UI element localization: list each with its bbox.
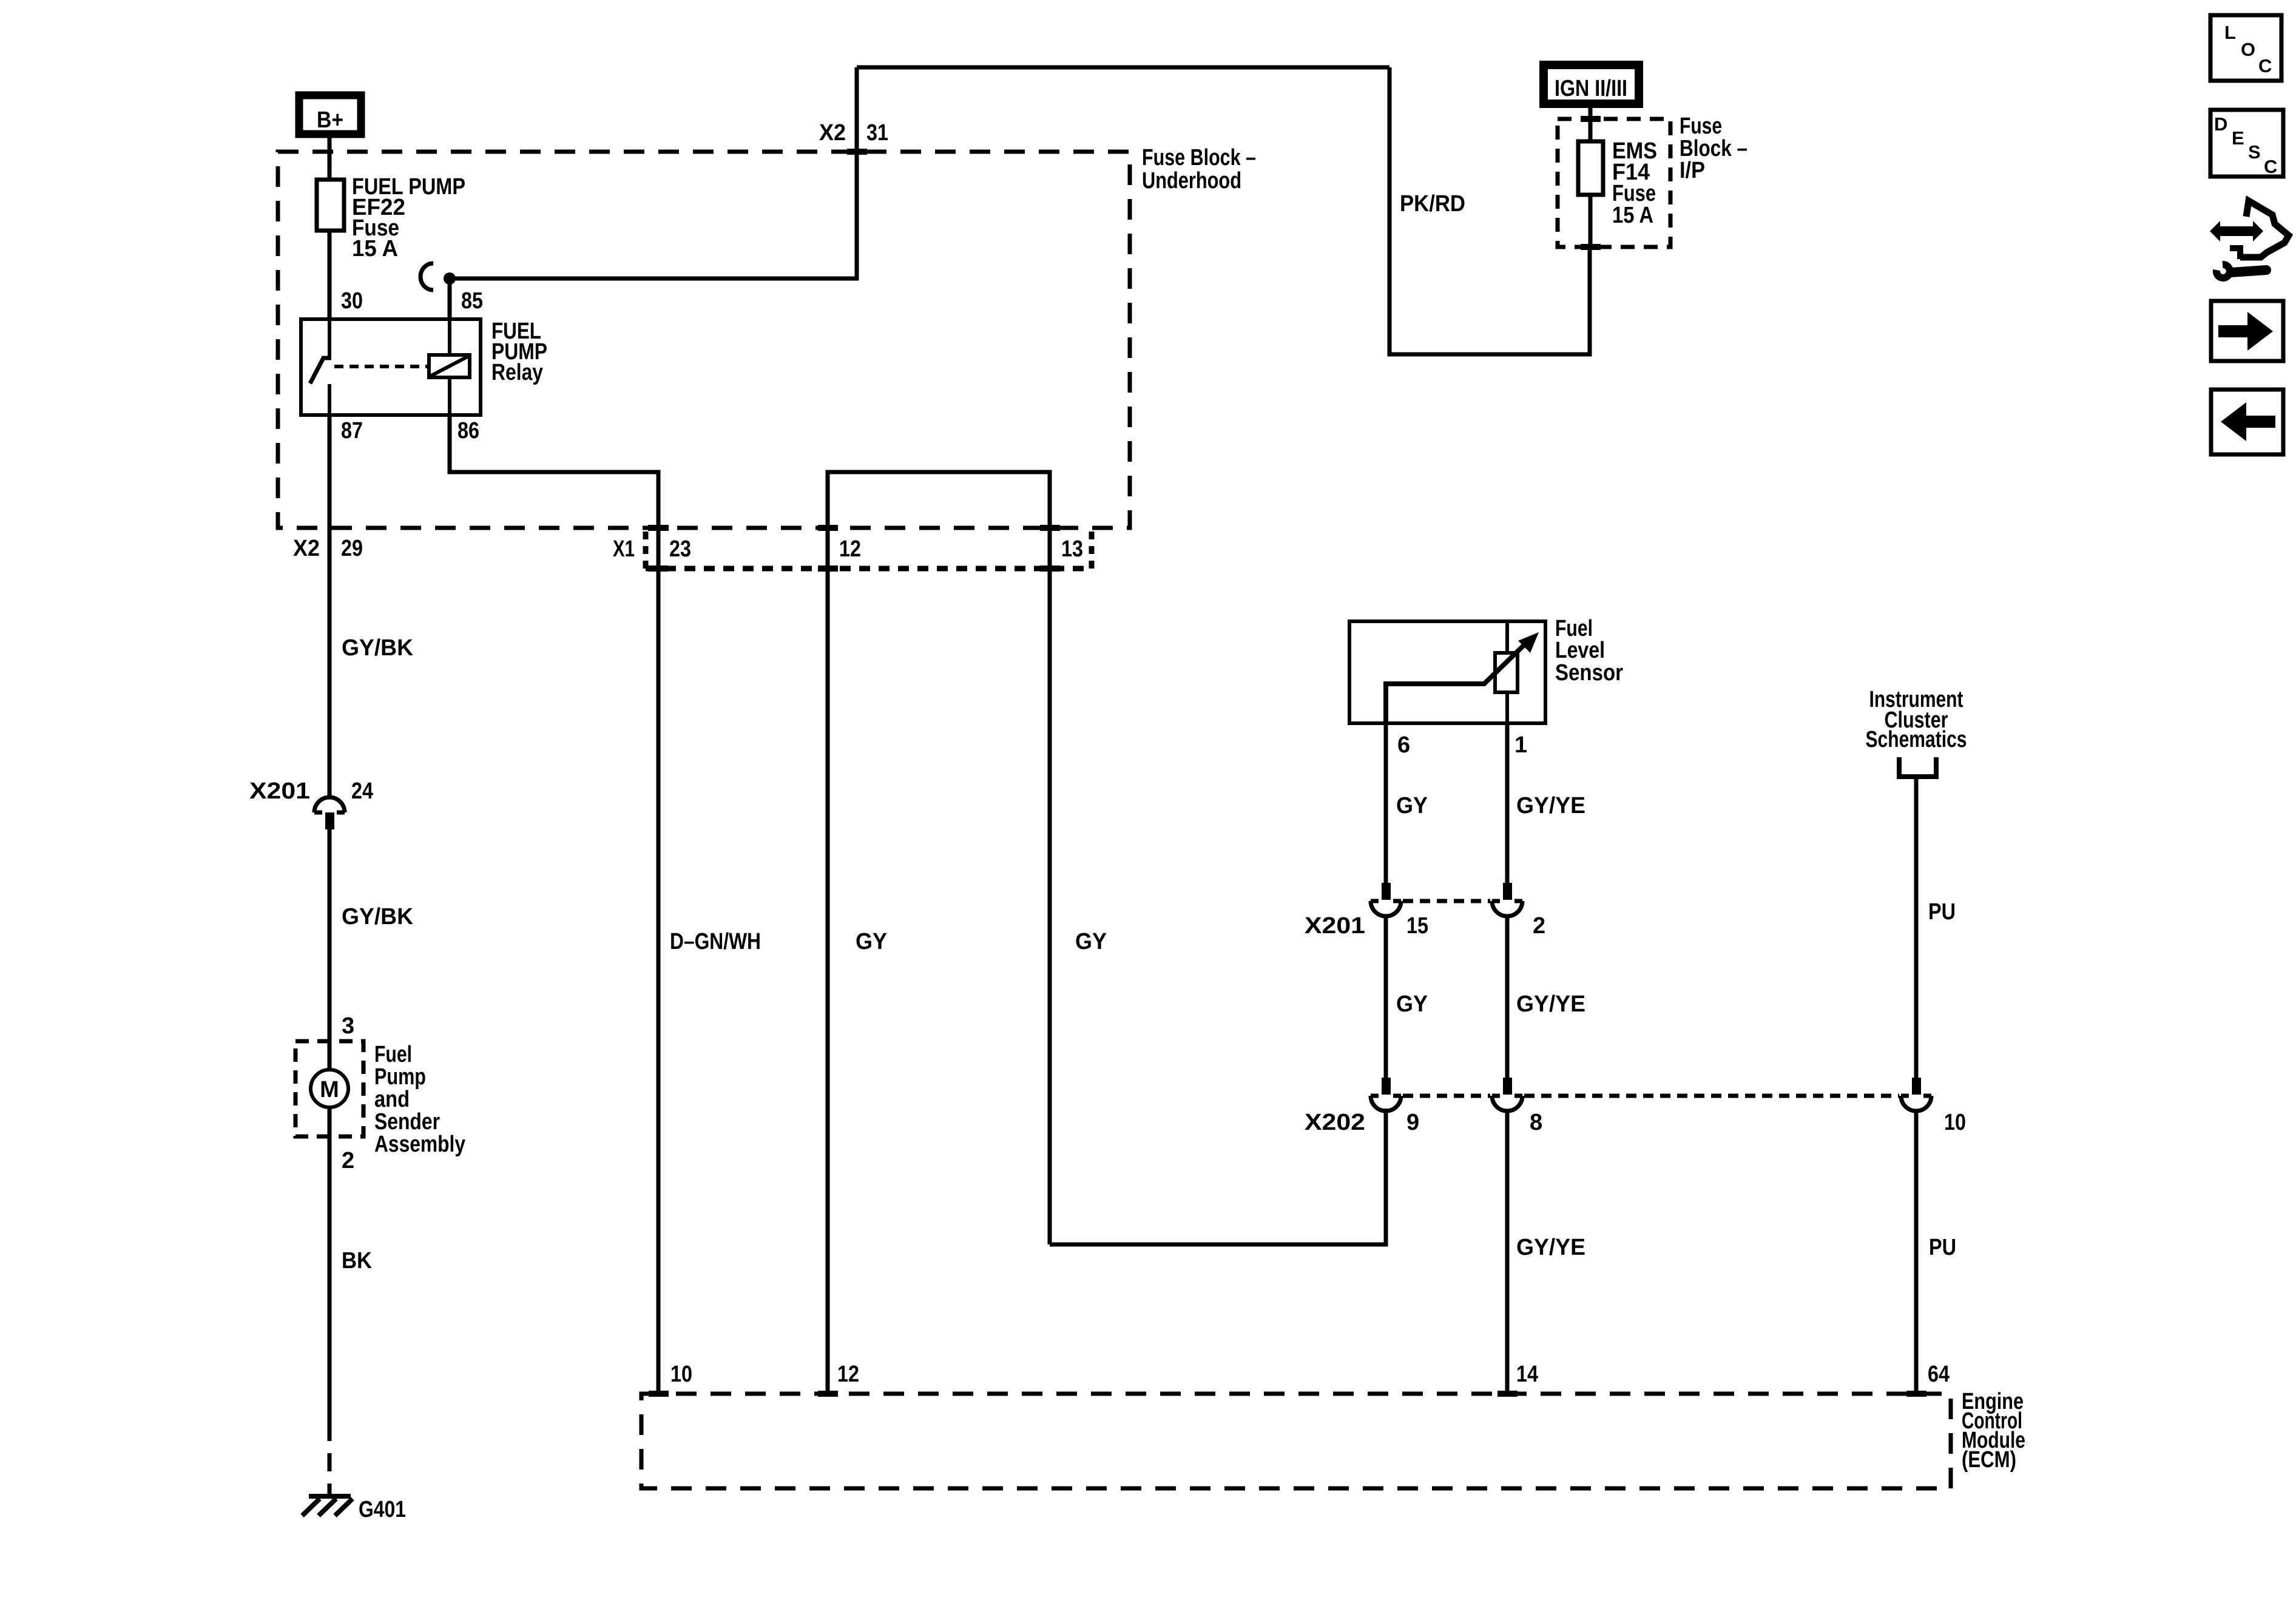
svg-text:GY/BK: GY/BK	[342, 904, 414, 930]
svg-text:X202: X202	[1305, 1110, 1365, 1135]
ECM label	[1962, 1389, 2025, 1473]
label Fuse Block - I/P	[1680, 113, 1747, 183]
wire pump to ground BK	[328, 1107, 332, 1423]
svg-text:86: 86	[458, 418, 479, 444]
svg-text:(ECM): (ECM)	[1962, 1447, 2016, 1473]
svg-text:IGN II/III: IGN II/III	[1555, 76, 1627, 101]
wire node to X2 pin 31	[450, 67, 857, 279]
svg-text:Relay: Relay	[491, 360, 543, 385]
relay pin labels 30 85 87 86	[341, 288, 483, 444]
sensor resistor element	[1495, 653, 1518, 692]
svg-text:1: 1	[1514, 732, 1527, 758]
svg-text:8: 8	[1530, 1110, 1542, 1135]
svg-text:G401: G401	[359, 1497, 406, 1522]
svg-text:D: D	[2214, 113, 2227, 135]
svg-text:12: 12	[837, 1362, 859, 1387]
svg-text:85: 85	[461, 288, 483, 314]
relay switch pin87 stub	[328, 384, 331, 415]
instrument cluster schematics label	[1866, 687, 1967, 752]
wire X202-10 to ECM pin 64	[1914, 1111, 1919, 1394]
X202 9 8 10 labels	[1305, 1110, 1966, 1135]
wire pin13 to X202-9	[1050, 1109, 1386, 1244]
svg-text:B+: B+	[317, 107, 343, 133]
fuel level sensor box	[1349, 621, 1545, 723]
icon next arrow	[2211, 301, 2283, 361]
svg-text:O: O	[2241, 39, 2255, 60]
icon back arrow	[2211, 390, 2283, 454]
wire node to relay pin 85	[448, 279, 452, 319]
wire IGN to fuse F14	[1589, 108, 1593, 141]
svg-text:GY: GY	[1396, 991, 1428, 1017]
node X2 31 labels	[819, 120, 888, 155]
svg-text:14: 14	[1516, 1362, 1538, 1387]
relay coil wires	[448, 319, 451, 415]
svg-text:GY: GY	[856, 929, 887, 954]
svg-text:X2: X2	[819, 120, 846, 146]
svg-text:Pump: Pump	[374, 1064, 426, 1090]
svg-text:X1: X1	[613, 536, 635, 562]
border crossing ticks	[649, 116, 1926, 1397]
fuel pump motor M	[311, 1070, 348, 1107]
fuse block I/P dashed outline	[1558, 119, 1670, 247]
svg-text:31: 31	[866, 120, 888, 146]
svg-text:Fuse Block –: Fuse Block –	[1142, 145, 1256, 170]
fuse block bus pins 12 to 13	[828, 472, 1050, 1394]
connector X202-9	[1371, 1078, 1401, 1111]
connector X202-8	[1492, 1078, 1522, 1111]
wire labels GY GY/YE lower	[1396, 991, 1585, 1017]
wire X201-2 to X202-8	[1505, 916, 1510, 1078]
fuel pump label	[374, 1042, 465, 1157]
connector X1 region fine dashes	[646, 532, 1092, 569]
svg-text:29: 29	[341, 536, 363, 561]
fuse EF22	[317, 174, 465, 262]
wire relay 87 to X201-24	[328, 415, 332, 797]
sensor wiper arrowhead	[1518, 632, 1539, 653]
node junction dot	[444, 272, 456, 285]
ground G401	[302, 1496, 406, 1522]
ECM pin labels 10 12	[670, 1362, 859, 1387]
svg-text:M: M	[320, 1077, 339, 1102]
svg-text:BK: BK	[342, 1248, 373, 1274]
svg-text:24: 24	[351, 778, 373, 804]
svg-text:9: 9	[1406, 1110, 1419, 1135]
wire fuse F14 internal	[1589, 195, 1593, 247]
sensor element wires	[1505, 621, 1509, 723]
svg-text:Sender: Sender	[374, 1109, 440, 1135]
connector X201-15	[1371, 883, 1401, 916]
svg-text:Fuel: Fuel	[374, 1042, 412, 1067]
wire X202-8 to ECM pin 14	[1505, 1111, 1510, 1394]
svg-text:Schematics: Schematics	[1866, 727, 1967, 752]
X1 23 labels	[613, 525, 691, 572]
svg-text:X201: X201	[1305, 913, 1365, 939]
icon DESC	[2210, 110, 2283, 177]
power symbol IGN II/III	[1544, 65, 1639, 104]
instrument cluster bracket	[1899, 757, 1936, 777]
ground dashed lead	[328, 1423, 332, 1494]
svg-text:15 A: 15 A	[352, 236, 398, 262]
svg-text:and: and	[374, 1087, 410, 1112]
fuel pump and sender assembly dashed box	[295, 1041, 363, 1136]
power symbol B+	[299, 95, 361, 134]
svg-text:GY: GY	[1075, 929, 1107, 954]
wire cluster to X202-10	[1914, 779, 1919, 1078]
sensor label	[1555, 616, 1623, 686]
wire X201-15 to X202-9	[1384, 916, 1388, 1078]
svg-text:2: 2	[1533, 913, 1545, 939]
node X2 29 labels	[293, 536, 363, 561]
svg-text:X2: X2	[293, 536, 320, 561]
svg-text:D–GN/WH: D–GN/WH	[670, 929, 761, 954]
relay FUEL PUMP Relay box	[301, 319, 481, 415]
svg-text:10: 10	[670, 1362, 692, 1387]
relay switch blade	[310, 358, 331, 383]
svg-text:PU: PU	[1928, 899, 1956, 925]
fuse EMS F14	[1578, 138, 1657, 228]
svg-text:Assembly: Assembly	[374, 1132, 465, 1157]
wire X201-24 to fuel pump	[328, 829, 332, 1070]
svg-text:87: 87	[341, 418, 363, 444]
svg-text:Level: Level	[1555, 638, 1605, 663]
svg-text:PK/RD: PK/RD	[1400, 191, 1465, 217]
icon LOC	[2210, 15, 2281, 81]
wire PK/RD to EMS fuse	[1389, 67, 1590, 354]
svg-text:L: L	[2224, 22, 2236, 43]
svg-text:15 A: 15 A	[1612, 203, 1653, 228]
fuse block underhood dashed outline	[278, 152, 1130, 528]
X201 15 2 labels	[1305, 913, 1545, 939]
svg-text:64: 64	[1928, 1362, 1950, 1387]
relay coil	[429, 355, 470, 377]
wire relay 86 to fuse block X1 pin 23	[450, 415, 658, 1394]
relay labels	[491, 319, 547, 385]
svg-text:GY: GY	[1396, 793, 1428, 819]
svg-text:23: 23	[669, 536, 691, 562]
svg-text:Fuse: Fuse	[1680, 113, 1722, 139]
wire labels D-GN/WH GY GY	[670, 929, 1107, 954]
sensor wiper	[1386, 644, 1525, 723]
sensor pin labels 6 1	[1397, 732, 1527, 758]
relay switch pin30 stub	[328, 319, 331, 357]
svg-text:GY/YE: GY/YE	[1516, 793, 1585, 819]
svg-text:12: 12	[839, 536, 861, 562]
wire sensor pin6 down	[1384, 723, 1388, 883]
svg-text:6: 6	[1397, 732, 1410, 758]
wire fuse to relay pin 30	[328, 231, 332, 319]
connector X201 dashed link	[1403, 899, 1490, 903]
wire B+ to fuse EF22	[328, 138, 332, 180]
svg-text:15: 15	[1406, 913, 1428, 939]
connector X201-24	[249, 778, 373, 829]
svg-text:2: 2	[342, 1148, 354, 1173]
svg-text:E: E	[2232, 127, 2244, 149]
connector X201-2	[1492, 883, 1522, 916]
svg-text:GY/YE: GY/YE	[1516, 991, 1585, 1017]
svg-text:10: 10	[1944, 1110, 1966, 1135]
svg-text:Underhood: Underhood	[1142, 168, 1241, 194]
icon vehicle with wrench	[2210, 201, 2289, 278]
svg-text:3: 3	[342, 1013, 354, 1039]
engine control module dashed box	[641, 1394, 1951, 1488]
wire labels GY GY/YE upper	[1396, 793, 1585, 819]
wire stub curl at node	[420, 263, 433, 290]
svg-text:30: 30	[341, 288, 363, 314]
pin 12 13 labels	[839, 536, 1083, 562]
svg-text:GY/BK: GY/BK	[342, 635, 414, 661]
svg-text:C: C	[2264, 156, 2277, 177]
svg-text:13: 13	[1061, 536, 1083, 562]
svg-text:PU: PU	[1929, 1235, 1956, 1260]
connector X202-10	[1901, 1078, 1931, 1111]
svg-text:C: C	[2258, 55, 2272, 76]
svg-text:GY/YE: GY/YE	[1516, 1235, 1585, 1260]
svg-text:Sensor: Sensor	[1555, 660, 1623, 686]
wire top run to PK/RD	[857, 66, 1389, 70]
svg-text:X201: X201	[249, 778, 310, 804]
svg-text:I/P: I/P	[1680, 158, 1705, 183]
wire sensor pin1 down	[1505, 723, 1510, 883]
relay actuation dashed link	[334, 365, 429, 368]
label Fuse Block - Underhood	[1142, 145, 1256, 194]
svg-text:S: S	[2248, 141, 2261, 163]
connector X202 dashed link	[1403, 1094, 1899, 1098]
